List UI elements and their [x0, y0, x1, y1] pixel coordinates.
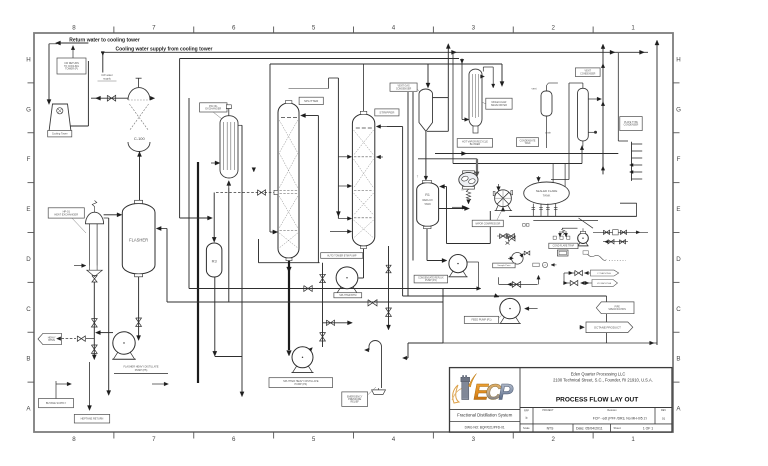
leader pressure relief [368, 387, 376, 395]
border frame [34, 33, 673, 432]
small sample pump [512, 252, 524, 264]
wire cyclone to R1 [425, 131, 427, 178]
label box emergency pressure relief [342, 392, 368, 407]
label box STRIPPER [375, 109, 399, 116]
wire reflux branch with valve [323, 322, 350, 324]
svg-text:Cooling Tower: Cooling Tower [52, 133, 68, 136]
label box butane supply [39, 399, 74, 408]
valve on condenser CW line [107, 95, 115, 101]
wire splitter bottoms thick [288, 261, 290, 350]
svg-text:HEAT EXCHANGER: HEAT EXCHANGER [54, 212, 78, 216]
wire reflux drop line [317, 116, 319, 263]
condenser C-100 X internals [129, 104, 148, 131]
svg-text:FCP - edt (PFF /DR3, No MH-0/5: FCP - edt (PFF /DR3, No MH-0/5 2 i [593, 416, 648, 420]
svg-text:H: H [26, 56, 30, 63]
arrow recycle into flasher right [158, 228, 167, 230]
exchanger FW top nozzle [228, 109, 230, 116]
label box splitter btms pump [269, 378, 333, 388]
exchanger FW shell [220, 116, 238, 170]
svg-text:1: 1 [631, 436, 635, 443]
arrow down to heptane return [107, 391, 111, 396]
wire reflux lower vertical [322, 263, 324, 347]
column SPLITTER tray line 2 [280, 230, 298, 232]
svg-text:8: 8 [72, 24, 76, 31]
svg-text:CONDENSER: CONDENSER [580, 72, 596, 75]
wire P2 discharge [467, 261, 478, 263]
pump P5 flasher heavy distillate [113, 332, 135, 354]
wire stripper reflux from R1 area [387, 126, 403, 128]
R1 bottom nozzle [424, 226, 432, 228]
svg-text:6: 6 [232, 24, 236, 31]
wire return riser to cooling tower [48, 44, 50, 101]
svg-text:R1: R1 [425, 193, 430, 197]
svg-text:BLOWER: BLOWER [470, 143, 481, 146]
svg-text:TANK: TANK [525, 142, 531, 145]
vessel R1 reflux tank [417, 183, 439, 227]
svg-text:R3: R3 [212, 259, 218, 264]
valve stack upper [91, 319, 97, 327]
arrow up into FW exchanger bottom [227, 181, 231, 186]
valve on heavy bottoms line [77, 336, 85, 341]
wire pipe A horizontal top [180, 58, 459, 60]
vent squiggle [583, 253, 606, 261]
arrow into right main junction [650, 341, 654, 345]
arrow right near butane [67, 382, 71, 386]
wire gooseneck supply elbow [408, 342, 443, 344]
svg-text:PUMP (P4): PUMP (P4) [294, 383, 307, 386]
grid ticks top/bottom [113, 27, 115, 34]
svg-text:Revision: Revision [607, 409, 617, 412]
pump P3 stripper bottoms [336, 267, 358, 289]
arrow heptane return down [87, 406, 91, 411]
mini row CT [533, 263, 539, 267]
title block verticals [519, 368, 521, 432]
cooling tower [49, 104, 71, 132]
arrow return water left [56, 41, 61, 45]
label box heptane return [74, 414, 109, 423]
arrow stripper left line down [336, 212, 340, 217]
arrow into flare tank top [538, 176, 540, 179]
title block right dividers [520, 407, 672, 409]
svg-text:D: D [26, 256, 31, 263]
title block logo cell divider [450, 408, 521, 410]
column STRIPPER top tray dashes [356, 127, 360, 129]
wire vertical right main [656, 41, 658, 345]
svg-text:OCTANE PRODUCT: OCTANE PRODUCT [594, 325, 621, 329]
wire CW supply droppipe [102, 52, 104, 72]
wire dryer top right elbow [483, 66, 493, 68]
wire to plate condenser [617, 53, 619, 141]
svg-text:1: 1 [631, 24, 635, 31]
cyclone vessel [419, 89, 433, 131]
heat exchanger HP-01 funnel [87, 270, 103, 276]
label box cooling tower [48, 131, 72, 137]
flasher bottom nozzle [135, 274, 143, 277]
column STRIPPER packing X2 [354, 159, 374, 188]
svg-text:HY NAPHTHA: HY NAPHTHA [597, 282, 612, 285]
svg-text:SPECIFICATION: SPECIFICATION [608, 308, 626, 311]
wire long drop line x242 [241, 125, 243, 393]
valve small left of row [509, 236, 515, 241]
svg-text:PUMP (P5): PUMP (P5) [135, 369, 148, 372]
wire supply drop x453 [452, 52, 454, 163]
svg-text:b: b [526, 416, 528, 420]
arrow into compressor top [498, 184, 500, 189]
vent condenser bottom nozzle [582, 141, 584, 147]
svg-text:TANK: TANK [424, 202, 431, 206]
flag octane product [586, 322, 633, 333]
dryer boot [473, 126, 478, 133]
wire FW exchanger right nozzle [238, 124, 242, 126]
svg-text:PUMP (P2): PUMP (P2) [425, 280, 437, 282]
svg-text:AUTO TOWER BTM PUMP: AUTO TOWER BTM PUMP [327, 254, 357, 257]
arrow supply header right 2 [640, 50, 645, 54]
wire twin verticals from vent condenser area [407, 92, 409, 296]
svg-text:vent: vent [532, 87, 537, 91]
arrow pump suction left [95, 331, 100, 335]
splitter side nozzle [274, 190, 278, 194]
valve splitter side [258, 190, 266, 195]
column SPLITTER bottom nozzle [286, 258, 292, 261]
wire HP-01 drain down through valve stack [93, 282, 95, 357]
arrow floating near splitter feed [252, 168, 256, 172]
wire stripper bottom to pump [363, 249, 365, 278]
svg-text:7: 7 [152, 24, 156, 31]
valve on x388 [386, 308, 392, 316]
wire pump suction left [98, 332, 113, 334]
svg-text:SIEVE DRYER: SIEVE DRYER [491, 104, 507, 107]
svg-text:Cooling water supply from cool: Cooling water supply from cooling tower [116, 46, 213, 52]
arrow into flasher inlet [117, 213, 122, 217]
svg-text:B: B [26, 356, 30, 363]
flare pump inlet line [562, 227, 578, 229]
arrow right mid-bottom [164, 382, 168, 386]
svg-text:NTS: NTS [547, 426, 555, 430]
wire thick dark vertical [197, 162, 199, 383]
wire cyclone bypass [447, 98, 449, 132]
svg-text:CONDENSER: CONDENSER [396, 87, 412, 90]
compressor fan [495, 190, 512, 207]
wire drain with X valve [498, 277, 500, 284]
wire recycle header y302 [167, 301, 443, 303]
label box sample point [493, 263, 515, 268]
wire bottom cross line to right main [443, 342, 657, 344]
arrow drain left [508, 283, 512, 286]
wire pipe inner drop [188, 98, 190, 289]
arrow into R1 top [424, 176, 428, 180]
wire R3 bottom down [214, 277, 216, 353]
valve strainer row 2 [603, 241, 628, 243]
wire R3 bottoms elbow right [215, 356, 242, 358]
flasher top nozzle [135, 200, 143, 203]
column STRIPPER tray line 1 [354, 156, 373, 158]
svg-text:G: G [26, 106, 31, 113]
svg-text:F: F [677, 156, 681, 163]
product row 1 [564, 272, 575, 274]
gooseneck funnel [372, 390, 386, 395]
title block frame [450, 368, 673, 432]
svg-text:4: 4 [392, 436, 396, 443]
arrow compressor bottom up [501, 207, 505, 211]
svg-text:3: 3 [472, 24, 476, 31]
pump P4 splitter btms recirc [292, 347, 313, 368]
small drum bottom stub [546, 116, 548, 148]
wire stub arrow mid-bottom [152, 383, 165, 385]
arrow feed into HP-01 [74, 265, 84, 267]
small valve above sample pump [524, 251, 530, 255]
arrow x603 top up [601, 44, 605, 49]
wire stripper left feed line [337, 78, 339, 219]
wire drop x388 with valve [388, 246, 390, 327]
valve on x388 upper [386, 265, 391, 273]
label box splitter btm [334, 293, 362, 298]
wire blower header [435, 153, 618, 155]
flare seal pump [578, 233, 589, 244]
flag product 1 outline [590, 270, 618, 276]
svg-text:REFLUX: REFLUX [422, 198, 433, 202]
column STRIPPER packing X1 [354, 130, 374, 155]
svg-text:8: 8 [72, 436, 76, 443]
label box HP-01 heat exchanger [48, 208, 84, 218]
label box pump tower btm pump [321, 253, 363, 259]
heat exchanger HP-01 dome [86, 212, 104, 224]
arrow blower header right [462, 151, 467, 155]
column STRIPPER shell [352, 114, 374, 246]
vessel R3 [206, 243, 222, 277]
arrow pipeA drop [460, 59, 464, 63]
valve on bottoms cross header [304, 286, 312, 292]
svg-text:C-100: C-100 [134, 136, 146, 141]
wire dryer feed drop [501, 64, 503, 84]
arrow right main up [655, 40, 659, 45]
pump P2 condensate reflux [449, 255, 467, 273]
stripper side inlet arrows left [338, 156, 349, 158]
vessel FLASHER [122, 204, 155, 274]
arrow condenser CW in right [150, 97, 152, 99]
label box dryer [486, 98, 512, 109]
logo ECP [452, 374, 514, 405]
wire dashed to heavy bottoms flag [61, 338, 76, 340]
flare header 2 [533, 220, 598, 222]
flare tank legs [532, 204, 534, 217]
compressor base [496, 206, 498, 211]
plate condenser fins [631, 142, 633, 181]
wire splitter side valve dashed [216, 192, 274, 194]
CT box [557, 250, 568, 256]
wire R1 bottoms to pump P2 [426, 229, 428, 261]
label box plate type condenser [620, 117, 642, 131]
label box condensate tank [517, 138, 539, 147]
flare tank top stubs [552, 164, 554, 183]
wire condensate header to reflux drop [259, 262, 320, 264]
arrow x244 down [240, 392, 244, 397]
condenser C-100 top dome [128, 88, 150, 100]
wire FW exchanger bottom line [228, 188, 230, 302]
sealed flare tank oval [524, 182, 570, 204]
wire x443 drop [442, 289, 444, 344]
svg-text:Scale: Scale [523, 426, 530, 430]
wire vent condenser inlet from left [569, 82, 583, 84]
svg-text:FLASHER: FLASHER [129, 238, 148, 243]
svg-text:VAPOR COMPRESSOR: VAPOR COMPRESSOR [475, 222, 500, 225]
wire feed pump header [403, 295, 607, 297]
svg-text:RELIEF: RELIEF [351, 401, 360, 404]
heat exchanger HP-01 tubes [88, 224, 90, 266]
svg-text:STRIPPER: STRIPPER [379, 110, 395, 114]
R1 top nozzle [423, 180, 432, 182]
stripper side arrow right 2 [378, 156, 383, 158]
condenser C-100 top nozzle [138, 78, 140, 87]
riser at condensate header left [258, 239, 260, 263]
flag product 2 outline [592, 280, 618, 287]
wire plate condenser bottom out [620, 202, 637, 204]
arrow x388 down [386, 325, 390, 330]
riser to vent condenser bottom [581, 147, 583, 164]
dryer vessel [469, 69, 482, 126]
wire condenser to flasher [139, 152, 141, 201]
tiny squares on header [523, 224, 526, 227]
wire pipe B horizontal top [270, 63, 502, 65]
svg-text:PROCESS FLOW LAY OUT: PROCESS FLOW LAY OUT [556, 397, 638, 404]
label box FW oil exchanger [200, 103, 227, 112]
wire x603 vertical [602, 46, 604, 174]
svg-text:E: E [26, 206, 30, 213]
tiny squares row 2 [553, 236, 556, 239]
arrow reflux branch right [348, 321, 353, 325]
svg-text:C: C [676, 306, 681, 313]
wire R1 inlet from right [442, 186, 447, 188]
dryer internal tubes [472, 74, 474, 117]
svg-text:5: 5 [312, 436, 316, 443]
wire stub butane [55, 381, 57, 399]
wire pipe A to R3 [180, 217, 210, 219]
svg-text:PROJECT: PROJECT [542, 409, 554, 412]
svg-text:EXCHANGER: EXCHANGER [205, 108, 221, 111]
leader vent gas condenser [417, 89, 423, 95]
column STRIPPER tray line 2 [354, 190, 373, 192]
arrow into heavy bottoms flag [57, 337, 61, 341]
leader feed pump label [499, 315, 502, 318]
svg-text:Eden Quarter Processing LLC: Eden Quarter Processing LLC [571, 371, 626, 376]
arrow cyclone vent up [446, 44, 450, 49]
valve under HP-01 funnel [92, 276, 97, 282]
svg-text:7: 7 [152, 436, 156, 443]
vent arrow up from drain line [538, 278, 540, 285]
arrow R3 line down [213, 351, 217, 356]
svg-text:F: F [27, 156, 31, 163]
valve reflux line upper [320, 274, 326, 282]
valve flasher bottoms [136, 318, 142, 326]
wire CW to condenser with valve [91, 97, 128, 99]
svg-text:2: 2 [551, 436, 555, 443]
wire return water header [58, 42, 88, 44]
wire drop to bottom cross line [606, 296, 608, 343]
leader dryer label [482, 102, 486, 104]
valve pair near compressor [500, 234, 507, 239]
stripper lower feed arrow [330, 231, 349, 233]
svg-text:H: H [676, 56, 680, 63]
wire flasher recycle riser [166, 229, 168, 303]
wire R1 vapor line right [439, 208, 467, 210]
wire HP-01 outlet to flasher [104, 214, 120, 216]
wire heptane return drop [89, 362, 91, 408]
svg-text:L..: L.. [462, 189, 465, 192]
wire reflux into splitter top [303, 115, 318, 117]
svg-text:Fractional Distillation System: Fractional Distillation System [457, 412, 513, 417]
svg-text:TANK: TANK [543, 193, 551, 197]
column SPLITTER shell [278, 103, 299, 258]
condenser C-100 bottom dome [128, 142, 150, 152]
wire splitter overhead connect [328, 78, 330, 88]
arrow octane product [580, 325, 585, 329]
arrow gooseneck elbow left [403, 356, 407, 360]
valve recycle header [368, 300, 377, 306]
svg-text:supply: supply [103, 76, 111, 80]
svg-text:HEPTANE RETURN: HEPTANE RETURN [81, 418, 104, 421]
svg-text:DWG NO: BQP/021/PFD-01: DWG NO: BQP/021/PFD-01 [465, 425, 505, 429]
column STRIPPER packing X3 [354, 193, 374, 215]
svg-text:E: E [676, 206, 680, 213]
pump P1 feed pump [500, 298, 520, 318]
arrow grey drop into blower [475, 172, 479, 177]
arrow valve stack down [92, 355, 96, 360]
svg-text:RPP: RPP [524, 410, 529, 413]
wire blower header lower segment [418, 158, 477, 160]
svg-text:5: 5 [312, 24, 316, 31]
column SPLITTER packing X4 [279, 233, 298, 248]
vent condenser top nozzle [582, 83, 584, 88]
valve stack lower [91, 345, 97, 353]
valve reflux line lower [320, 333, 326, 341]
twin down arrows [559, 231, 561, 235]
wire splitter feed drop [269, 64, 271, 232]
arrow into feed pump [494, 294, 499, 298]
label box vent condenser [575, 68, 600, 77]
column SPLITTER packing X3 [279, 196, 298, 228]
arrow bottoms header right end [477, 287, 481, 291]
flare header 1 [509, 215, 637, 217]
svg-text:REV: REV [661, 409, 666, 412]
svg-text:Sample Point: Sample Point [497, 264, 510, 267]
wire splitter overhead grey line [289, 87, 329, 89]
wire stripper overhead to header [363, 64, 365, 111]
arrow up into condenser bottom [137, 152, 141, 157]
svg-text:B: B [676, 356, 680, 363]
column STRIPPER top nozzle [360, 111, 367, 114]
svg-text:BUTANE SUPPLY: BUTANE SUPPLY [46, 402, 67, 405]
column SPLITTER packing X2 [279, 153, 298, 188]
svg-text:LT NAPHTHA: LT NAPHTHA [597, 272, 611, 275]
label box feed pump [464, 316, 498, 323]
svg-text:SEALED FLARE: SEALED FLARE [536, 189, 558, 193]
wire thick grey drop to blower [476, 159, 478, 174]
wire CW return box to tower [87, 61, 89, 126]
arrow feed into FW exchanger [211, 162, 218, 164]
vent condenser right nozzle 2 [588, 131, 597, 133]
column SPLITTER top tray dashes [281, 117, 285, 119]
leader compressor label [497, 212, 501, 220]
arrow into cooling tower top [47, 100, 51, 105]
svg-text:G: G [676, 106, 681, 113]
vent condenser drum [578, 88, 589, 141]
label box CW return pump [57, 58, 86, 74]
expansion spring on flare inlet [562, 228, 565, 234]
small drum top stub [546, 86, 548, 92]
arrow supply header right 1 [610, 50, 615, 54]
wire cooling water supply header [101, 51, 648, 53]
svg-text:COND FLARE TRAP: COND FLARE TRAP [553, 245, 575, 248]
arrow x603 into header2 [601, 166, 605, 170]
